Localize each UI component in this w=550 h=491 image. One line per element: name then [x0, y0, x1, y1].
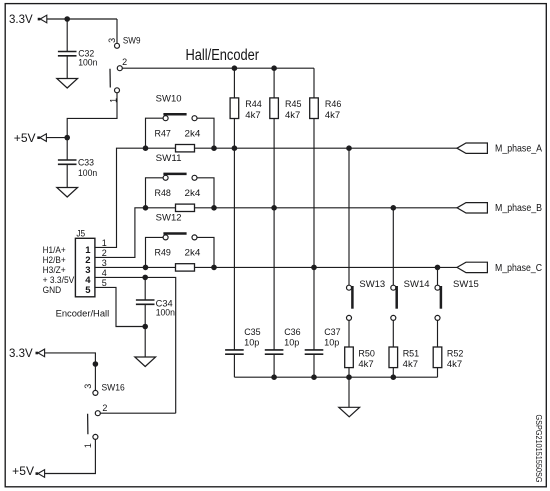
wire SW16 pin2 (to J5 pin4 riser) [100, 412, 175, 414]
switch SW14 (closed) [391, 279, 430, 320]
resistor R49 2k4 [155, 248, 201, 272]
svg-text:5: 5 [85, 285, 91, 296]
switch SW10 (closed) [146, 93, 215, 148]
junction rail/C37 [311, 374, 317, 380]
svg-text:Encoder/Hall: Encoder/Hall [56, 309, 110, 319]
wire row C to SW15 [437, 267, 439, 285]
svg-text:4k7: 4k7 [403, 359, 418, 369]
resistor R44 4k7 [230, 68, 262, 148]
svg-text:3.3V: 3.3V [9, 12, 33, 26]
svg-text:100n: 100n [78, 57, 97, 67]
wire SW16 pin1 to +5V [45, 439, 96, 473]
junction rail/R51 [391, 374, 397, 380]
svg-text:SW13: SW13 [359, 279, 385, 289]
wire row A to SW13 [348, 148, 350, 285]
junction row A / SW10 right [211, 145, 217, 151]
wire row C to M_phase_C [195, 266, 458, 268]
junction row C / SW12 left [143, 265, 149, 271]
resistor R48 2k4 [155, 188, 201, 212]
wire row A to M_phase_A [195, 147, 458, 149]
junction row B / SW11 left [143, 205, 149, 211]
svg-text:R46: R46 [325, 99, 342, 109]
net 3.3V (top) [9, 12, 47, 26]
svg-text:SW10: SW10 [156, 93, 182, 103]
wire to SW9 pin 3 [116, 19, 118, 43]
wire row B to M_phase_B [195, 207, 458, 209]
svg-text:R45: R45 [285, 99, 302, 109]
svg-text:+5V: +5V [14, 131, 36, 145]
resistor R50 4k7 [345, 320, 375, 377]
capacitor C35 10p [225, 327, 261, 377]
svg-text:R52: R52 [447, 348, 464, 358]
net +5V (top-left) [14, 131, 47, 145]
svg-text:SW9: SW9 [123, 36, 141, 46]
junction row A / R44 [232, 145, 238, 151]
net M_phase_A [457, 143, 542, 155]
junction row B / SW11 right [211, 205, 217, 211]
svg-text:10p: 10p [324, 338, 339, 348]
svg-text:2: 2 [102, 248, 107, 258]
svg-text:Hall/Encoder: Hall/Encoder [186, 47, 260, 64]
svg-text:2k4: 2k4 [185, 128, 201, 138]
svg-text:4k7: 4k7 [358, 359, 373, 369]
wire J5 pin5 to ground node [95, 287, 145, 326]
net 3.3V (bottom) [9, 346, 45, 360]
svg-text:M_phase_B: M_phase_B [495, 202, 542, 214]
junction 3.3V/C32 [64, 16, 70, 22]
svg-text:SW14: SW14 [404, 279, 430, 289]
wire J5 pin4 to SW16 riser [95, 277, 176, 413]
svg-text:H1/A+: H1/A+ [43, 245, 66, 255]
junction row A / SW10 left [143, 145, 149, 151]
wire R45 column to C36 [273, 208, 275, 350]
wire J5 pin2 to row B [95, 208, 176, 258]
resistor R45 4k7 [270, 68, 302, 208]
wire bottom ground rail [234, 376, 437, 378]
wire SW9 pin1 to +5V node [67, 93, 117, 138]
svg-text:100n: 100n [156, 308, 175, 318]
svg-text:1: 1 [83, 443, 93, 448]
wire rail to ground [348, 377, 350, 407]
wire R46 column to C37 [313, 267, 315, 349]
svg-text:4k7: 4k7 [447, 359, 462, 369]
junction C34/GND wire [142, 324, 148, 330]
svg-text:GND: GND [43, 285, 62, 295]
svg-text:H3/Z+: H3/Z+ [43, 265, 66, 275]
junction on SW16 feed [93, 361, 99, 367]
svg-text:R48: R48 [155, 188, 171, 198]
net M_phase_B [457, 202, 542, 214]
svg-text:2k4: 2k4 [185, 188, 201, 198]
junction row B / R45 [271, 205, 277, 211]
svg-text:2k4: 2k4 [185, 248, 201, 258]
ground (below C32) [57, 79, 78, 89]
svg-text:3: 3 [83, 384, 93, 389]
wire 3.3V rail [47, 18, 117, 20]
junction rail/R50 [346, 374, 352, 380]
svg-text:SW15: SW15 [453, 279, 479, 289]
switch SW13 (closed) [347, 279, 386, 320]
junction pin4/C34 [142, 275, 148, 281]
wire to ground [144, 327, 146, 357]
svg-text:3: 3 [107, 38, 117, 43]
svg-text:R50: R50 [358, 348, 375, 358]
capacitor C37 10p [305, 327, 341, 377]
svg-text:10p: 10p [284, 338, 299, 348]
svg-text:C36: C36 [284, 327, 300, 337]
svg-text:GSPG210151550SG: GSPG210151550SG [534, 415, 543, 483]
capacitor C33 100n [58, 138, 97, 188]
resistor R52 4k7 [433, 320, 463, 377]
ground (below C34) [135, 357, 156, 367]
svg-text:C33: C33 [78, 157, 94, 167]
wire J5 pin3 to row C [95, 266, 176, 268]
wire +5V [46, 137, 67, 139]
svg-text:4k7: 4k7 [245, 110, 260, 120]
wire R44 column to C35 [233, 148, 235, 350]
svg-text:1: 1 [102, 238, 107, 248]
svg-text:R51: R51 [403, 348, 420, 358]
svg-text:3: 3 [102, 258, 107, 268]
connector J5 (Encoder/Hall) [43, 228, 107, 296]
svg-text:C37: C37 [324, 327, 340, 337]
svg-text:5: 5 [102, 278, 107, 288]
svg-text:M_phase_C: M_phase_C [495, 262, 542, 274]
ground (bottom rail) [339, 407, 360, 417]
resistor R47 2k4 [155, 128, 201, 152]
junction row B / SW14 [391, 205, 397, 211]
capacitor C34 100n [136, 277, 175, 326]
junction row C / SW12 right [211, 265, 217, 271]
junction rail/C36 [271, 374, 277, 380]
junction bus/R44 [232, 65, 238, 71]
svg-text:J5: J5 [76, 228, 85, 238]
switch SW9 (SPDT) [107, 36, 141, 103]
junction row C / R46 [311, 265, 317, 271]
svg-text:4: 4 [102, 268, 107, 278]
svg-text:4k7: 4k7 [325, 110, 340, 120]
junction bus/R45 [271, 65, 277, 71]
wire J5 pin1 to row A [95, 148, 176, 247]
svg-text:2: 2 [102, 403, 107, 413]
switch SW11 (closed) [146, 153, 215, 208]
svg-text:3.3V: 3.3V [9, 346, 33, 360]
svg-text:2: 2 [122, 57, 127, 67]
svg-text:R44: R44 [245, 99, 261, 109]
svg-text:R47: R47 [155, 128, 171, 138]
svg-text:+5V: +5V [12, 464, 34, 478]
svg-text:M_phase_A: M_phase_A [495, 143, 542, 155]
junction row C / SW15 [435, 265, 441, 271]
resistor R46 4k7 [310, 68, 342, 267]
junction +5V/C33 [64, 135, 70, 141]
svg-text:R49: R49 [155, 248, 171, 258]
net +5V (bottom) [12, 464, 44, 478]
resistor R51 4k7 [389, 320, 419, 377]
svg-text:4k7: 4k7 [285, 110, 300, 120]
wire 3.3V to SW16 [45, 353, 96, 391]
wire pull-up bus [122, 67, 314, 69]
capacitor C36 10p [265, 327, 301, 377]
switch SW16 (SPDT) [83, 383, 125, 449]
svg-text:10p: 10p [244, 338, 259, 348]
switch SW12 (closed) [146, 213, 215, 268]
svg-text:H2/B+: H2/B+ [43, 255, 66, 265]
svg-text:100n: 100n [78, 168, 97, 178]
svg-text:+ 3.3/5V: + 3.3/5V [43, 275, 75, 285]
svg-text:SW16: SW16 [102, 383, 125, 393]
ground (below C33) [57, 188, 78, 198]
svg-text:SW12: SW12 [156, 213, 182, 223]
wire row B to SW14 [392, 208, 394, 285]
svg-text:SW11: SW11 [156, 153, 182, 163]
junction row A / SW13 [346, 145, 352, 151]
net M_phase_C [457, 262, 542, 274]
capacitor C32 100n [58, 19, 97, 78]
svg-text:C35: C35 [244, 327, 260, 337]
switch SW15 (closed) [435, 279, 479, 320]
